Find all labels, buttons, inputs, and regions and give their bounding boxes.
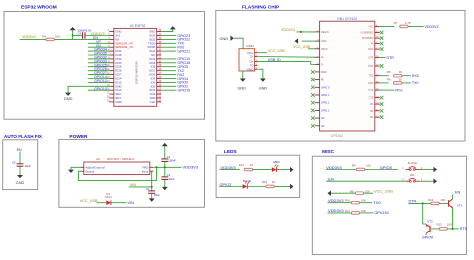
U1 left pin stubs and numbers [107,30,114,102]
wire R15 to gnd [274,186,290,188]
svg-text:4.7K: 4.7K [405,21,411,25]
svg-text:GND: GND [259,86,268,91]
net label RTS wire [380,89,395,91]
svg-text:10uF: 10uF [24,164,30,168]
svg-text:VCC_USB: VCC_USB [293,45,311,49]
svg-text:RI: RI [321,79,324,82]
svg-text:U2: U2 [96,157,100,161]
wire R11 to GPIO15 [360,212,373,214]
ground (led1, right arrow) [290,167,294,172]
svg-text:LEDS: LEDS [224,149,238,155]
wire C3 to ground [164,179,166,187]
svg-text:CTS: CTS [369,97,374,100]
capacitor C4 100uF/6.3V [73,35,83,37]
svg-text:NC: NC [321,117,325,120]
svg-text:VDD3V3: VDD3V3 [183,165,199,170]
ground (top of C4) [72,30,74,39]
op-amp GB1 CP2102 body [320,21,375,131]
svg-text:1K: 1K [250,163,254,167]
svg-text:R13: R13 [437,223,443,227]
svg-text:NCP1117 / AMS1117: NCP1117 / AMS1117 [107,157,135,161]
svg-text:GND: GND [220,36,229,41]
regulator U2 NCP1117/AMS1117 body [84,162,150,175]
ground (vcc_usb pulldown, left arrow) [328,191,332,196]
wire shield gnd to USB1 [234,38,243,49]
wire VDD3V3 to R9 [326,169,357,171]
svg-text:10K: 10K [361,199,366,203]
svg-text:RTS: RTS [460,227,468,231]
wire GPIO2 to LED2 [219,186,242,188]
svg-text:R12: R12 [428,198,434,202]
svg-text:GPIO21: GPIO21 [177,49,190,53]
wire FLASH to gnd [419,169,433,171]
resistor R7 4.7K [400,25,408,28]
svg-text:R4: R4 [42,34,46,38]
wire VT1 collector to EN [452,194,454,199]
svg-text:D-: D- [321,64,324,67]
svg-text:10K: 10K [366,164,371,168]
svg-text:VIN: VIN [130,183,137,187]
svg-text:R11: R11 [345,209,350,213]
svg-text:Input: Input [142,169,149,173]
svg-text:C1: C1 [146,187,150,191]
svg-text:GPIO15: GPIO15 [177,89,190,93]
wire DTR down to VT2 emitter [423,203,427,224]
svg-text:EN: EN [410,173,414,177]
svg-text:R14: R14 [239,163,245,167]
junction VIN [151,186,153,188]
resistor R5 1K [394,75,402,78]
svg-text:1K: 1K [272,180,276,184]
svg-text:FLASHING CHIP: FLASHING CHIP [242,5,280,11]
wire DTR to R12 [409,202,431,204]
ground (U2 adj) [68,170,74,173]
wire EN to C6 [19,152,21,164]
op-amp U1 ESP32 body [114,28,157,106]
svg-text:SS14: SS14 [105,195,112,199]
CP2102 left NC pins with no-connect marks [311,70,330,128]
capacitor C1 10uF [151,187,153,191]
svg-text:DTR: DTR [409,200,417,204]
svg-text:NC: NC [370,110,374,113]
svg-text:GPIO12: GPIO12 [94,79,107,83]
svg-text:AUTO FLASH FIX: AUTO FLASH FIX [4,134,43,139]
wire VT2 base to R13 [430,228,439,230]
ground (U1 left) [65,93,71,96]
svg-text:RI: RI [371,43,374,46]
svg-text:NC: NC [370,116,374,119]
svg-text:C2: C2 [167,155,171,159]
svg-text:GPIO.0: GPIO.0 [321,86,330,89]
wire USB D- to CP2102 D+ [257,56,314,59]
wire LED1 to gnd [277,169,291,171]
ground (USB GND pin) [260,79,266,82]
wire R10 to TX0 [360,202,372,204]
power label VCC_USB (USB VCC) [257,52,267,54]
transistor VT1 [448,200,450,206]
svg-text:REGIN: REGIN [321,31,329,34]
svg-text:10K: 10K [55,34,60,38]
ground (en, right arrow) [434,179,438,184]
wire EN to button [326,180,405,182]
ground (U1 top right) [170,26,176,29]
svg-text:10uF: 10uF [154,193,160,197]
svg-text:TXD: TXD [369,75,374,78]
U1 right wires and net labels [161,34,190,93]
capacitor C3 10uF [164,167,166,176]
svg-text:10uF: 10uF [168,177,174,181]
svg-text:U1 ESP32: U1 ESP32 [130,24,146,28]
ground (C3) [162,187,168,190]
svg-text:GB1 CP2102: GB1 CP2102 [337,17,357,21]
junction VT1 emitter / RTS [452,228,454,230]
svg-text:NC: NC [321,125,325,128]
wire R8 to VCC_USB [364,192,373,194]
diode D1 SS14 [106,200,111,205]
svg-text:VCC_USB: VCC_USB [268,49,286,53]
svg-text:1K: 1K [399,70,403,74]
wire Input to VIN node [152,171,154,187]
wire VT2 collector to GPIO0 [425,233,427,235]
svg-text:VDD3V3: VDD3V3 [221,165,236,170]
resistor R10 10K [351,201,359,204]
wire R6 to TX0 [402,82,411,84]
svg-text:GND: GND [64,96,73,101]
wire RXD to R6 [380,82,389,84]
svg-text:MISC: MISC [322,149,335,155]
junction rail/caps [164,166,166,168]
resistor R13 10K [439,228,447,231]
wire VDD3V3 to R11 [328,212,351,214]
svg-text:R10: R10 [345,199,351,203]
svg-text:DCD: DCD [321,71,327,74]
resistor R12 10K [431,202,439,205]
wire R12 to VT1 base [440,202,449,204]
U1 left wires and net labels [88,40,109,91]
wire USB D+ to CP2102 D- [257,62,314,65]
svg-text:GND: GND [247,67,255,71]
svg-text:DTR: DTR [368,57,373,60]
svg-text:10K: 10K [447,223,452,227]
svg-text:RED: RED [273,160,280,164]
svg-text:VT2: VT2 [427,220,433,224]
svg-text:10K: 10K [361,209,366,213]
wire gnd to R8 [331,192,355,194]
svg-text:RTS: RTS [369,89,374,92]
svg-text:R9: R9 [352,164,356,168]
wire USB GND down [257,69,263,78]
ground (flash, right arrow) [434,167,438,172]
capacitor C6 10uF [17,163,24,165]
svg-text:VCC_USB: VCC_USB [80,199,98,203]
ground (power rail top) [164,146,166,158]
svg-text:VDD3V3: VDD3V3 [328,198,344,203]
wire D1 to VIN [111,202,127,204]
junction PAD/rail [156,166,158,168]
svg-text:VDD3V3: VDD3V3 [328,208,344,213]
U1 right pin stubs and numbers [157,30,162,102]
svg-text:VDD3V3: VDD3V3 [22,35,36,39]
svg-text:TX0: TX0 [373,200,381,205]
svg-text:R7: R7 [394,21,398,25]
svg-text:GPIO0: GPIO0 [422,235,434,239]
wire R14 to LED1 [253,169,272,171]
svg-text:C6: C6 [12,160,16,164]
svg-text:VIN: VIN [128,201,135,205]
ground (C1) [149,198,155,201]
svg-text:FLASH: FLASH [408,161,417,165]
ground (USB shell) [240,79,246,82]
wire 3v3 rail to U1 pin 3v3 [85,35,109,37]
svg-text:D-: D- [250,55,253,59]
ground (led2, right arrow) [290,184,294,189]
svg-text:VDD3V3: VDD3V3 [326,165,342,170]
net label DTR wire [380,57,386,59]
svg-text:GND: GND [237,86,246,91]
svg-text:VBUS: VBUS [321,48,328,51]
section box ESP32 WROOM [4,12,205,120]
push button FLASH [405,169,409,171]
svg-text:C4: C4 [78,32,82,36]
svg-text:GPIO.1: GPIO.1 [321,94,330,97]
power label VCC_USB (VBUS) [308,48,315,50]
wire VDD3V3 rail [157,166,182,168]
capacitor C2 100nF [161,158,168,160]
resistor R15 1K [266,185,274,188]
connector USB1 body [239,49,255,71]
svg-text:DCD: DCD [368,48,373,51]
wire USB shell down [242,71,244,79]
svg-text:ESP32-WROOM: ESP32-WROOM [135,61,139,84]
svg-text:USB_ID: USB_ID [268,58,281,62]
LED blue [243,184,248,189]
svg-text:RX0: RX0 [412,74,419,78]
svg-text:CMD: CMD [115,100,122,104]
svg-text:VDD3V3: VDD3V3 [281,28,295,32]
wire R13 to RTS [448,228,459,230]
svg-text:R15: R15 [262,180,268,184]
power label VIN [129,186,152,188]
LED red [272,167,277,172]
wire R7 to VDD3V3 [408,26,423,28]
wire U1 GND pin15 to ground [68,86,109,92]
section box LEDS [216,155,300,197]
section box FLASHING CHIP [216,10,465,141]
junction DTR [422,202,424,204]
svg-text:10K: 10K [365,189,370,193]
svg-text:CP2102: CP2102 [331,134,343,138]
wire C1 to ground [151,193,153,198]
svg-text:R8: R8 [350,189,354,193]
svg-text:ESP32 WROOM: ESP32 WROOM [21,5,57,11]
svg-text:DTR: DTR [387,56,395,60]
wire Adjust/Ground to ground [71,167,80,169]
wire VCC to R7 [380,26,395,28]
svg-text:VCC: VCC [368,26,373,29]
resistor R6 1K [394,82,402,85]
transistor VT2 [429,226,431,232]
section box AUTO FLASH FIX [3,140,38,190]
svg-text:CLK: CLK [150,100,156,104]
svg-text:GPIO0: GPIO0 [380,165,393,170]
svg-text:GPIO13: GPIO13 [94,87,107,91]
svg-text:SUSPEND: SUSPEND [362,37,374,40]
wire LED2 to R15 [247,186,265,188]
svg-text:GPIO2: GPIO2 [220,182,232,187]
svg-text:R6: R6 [387,77,391,81]
section box POWER [59,139,205,207]
svg-text:GND: GND [16,180,25,185]
svg-text:USB1: USB1 [246,44,254,48]
section box MISC [312,156,466,254]
wire EN net from R4 to U1 pin EN [20,38,110,40]
resistor R14 1K [244,168,252,171]
wire R5 to RX0 [402,75,411,77]
wire VDD3V3 to R10 [328,202,351,204]
wire VCC_USB to D1 [97,202,107,204]
wire U1 GND pin38 to ground [161,29,173,31]
svg-text:GND: GND [321,40,327,43]
U1 left pin names [115,30,133,104]
svg-text:NC: NC [370,103,374,106]
svg-text:VDD3V3: VDD3V3 [425,25,439,29]
svg-text:DSR: DSR [368,65,373,68]
CP2102 left named pins [315,31,329,67]
U1 right pin names [148,30,156,104]
resistor R4 [46,38,54,41]
svg-text:EN: EN [328,177,334,182]
svg-text:R5: R5 [387,70,391,74]
CP2102 right no-connect marks [380,31,384,119]
power label VDD3V3 (REGIN) [297,31,315,33]
wire PAD to rail [153,166,156,168]
wire TXD to R5 [380,75,389,77]
svg-text:RXD: RXD [368,82,373,85]
svg-text:C3: C3 [167,173,171,177]
svg-text:GPIO15: GPIO15 [374,210,389,215]
svg-text:1K: 1K [399,77,403,81]
junction REGIN [300,31,302,33]
svg-text:RTS: RTS [395,88,403,92]
svg-text:SUSPEND2: SUSPEND2 [361,32,375,35]
ground (CP2102 GND pin, left arrow) [302,40,315,42]
svg-text:EN: EN [17,148,22,152]
push button EN [405,180,409,182]
ground (auto flash fix) [17,175,23,178]
wire EN button to gnd [419,180,433,182]
resistor R11 10K [351,212,359,215]
resistor R9 10K [356,168,364,171]
svg-text:10K: 10K [441,198,446,202]
CP2102 right pins [361,25,380,119]
junction on C4 net [72,35,74,37]
svg-text:GPIO.3: GPIO.3 [321,109,330,112]
svg-text:TX0: TX0 [412,81,419,85]
wire C6 to ground [19,166,21,175]
svg-text:EN: EN [455,190,461,194]
svg-text:GPIO.2: GPIO.2 [321,102,330,105]
svg-text:BLUE: BLUE [243,179,251,183]
wire VT2 emitter up [425,223,427,226]
USB1 pin names and stubs [247,51,258,72]
U2 pins [80,165,153,173]
svg-text:100nF: 100nF [168,159,176,163]
svg-text:Output: Output [85,169,94,173]
wire R9 to GPIO0 and FLASH [365,169,398,171]
wire Output loop to VDD3V3 rail [79,167,157,180]
wire VT1 emitter down to RTS row [452,208,454,229]
wire VDD3V3 to R14 [220,169,240,171]
svg-text:VT1: VT1 [457,204,463,208]
resistor R8 10K [355,192,363,195]
svg-text:VCC_USB: VCC_USB [374,189,393,194]
